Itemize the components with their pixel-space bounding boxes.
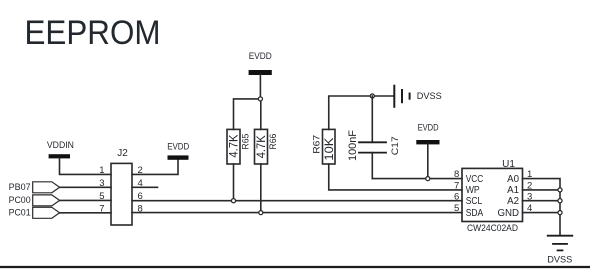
- svg-text:PB07: PB07: [9, 182, 31, 192]
- svg-text:J2: J2: [117, 148, 128, 159]
- power symbol EVDD at J2: [167, 142, 189, 160]
- svg-text:7: 7: [99, 203, 104, 214]
- wire U1 A0 to ground rail: [523, 179, 561, 236]
- wire J2 pin 4 stub: [132, 186, 158, 188]
- junction EVDD/VCC: [426, 177, 430, 181]
- ground symbol DVSS bottom: [547, 236, 572, 266]
- svg-text:8: 8: [454, 169, 459, 180]
- junction C17/DVSS rail: [370, 94, 374, 98]
- svg-text:4.7K: 4.7K: [227, 135, 241, 158]
- wire PC01 to J2 pin 7: [60, 212, 111, 214]
- ground symbol DVSS top: [394, 86, 442, 107]
- wire U1 GND: [523, 212, 561, 214]
- wire PB07 to J2 pin 3: [60, 186, 111, 188]
- svg-text:GND: GND: [497, 208, 519, 219]
- capacitor C17: [359, 96, 386, 179]
- wire R65 to SCL: [233, 164, 235, 201]
- svg-text:R65: R65: [240, 134, 250, 150]
- sheet border bottom: [0, 266, 590, 268]
- svg-text:DVSS: DVSS: [547, 254, 572, 265]
- resistor R67: [323, 129, 336, 164]
- svg-text:EVDD: EVDD: [249, 51, 272, 62]
- svg-text:A0: A0: [507, 174, 519, 185]
- svg-text:R67: R67: [312, 135, 322, 154]
- svg-text:CW24C02AD: CW24C02AD: [467, 223, 518, 234]
- svg-text:100nF: 100nF: [347, 130, 359, 161]
- port arrow PB07: [33, 182, 60, 193]
- junction R66/SDA: [259, 211, 263, 215]
- svg-text:VDDIN: VDDIN: [47, 140, 74, 151]
- junction A1: [558, 188, 562, 192]
- connector J2: [111, 163, 132, 225]
- wire PC00 to J2 pin 5: [60, 199, 111, 201]
- svg-text:DVSS: DVSS: [417, 91, 442, 102]
- wire R66 to SDA: [260, 164, 262, 213]
- wire EVDD right drop to VCC line: [427, 144, 429, 178]
- junction EVDD top: [258, 97, 262, 101]
- junction GND: [558, 211, 562, 215]
- svg-text:7: 7: [454, 181, 459, 192]
- power symbol VDDIN: [47, 140, 74, 159]
- wire VDDIN to J2 pin 1: [60, 158, 112, 174]
- svg-text:5: 5: [99, 191, 104, 202]
- junction A2: [558, 199, 562, 203]
- IC U1: [462, 168, 523, 221]
- wire net SDA bus J2 pin 8 to U1 SDA: [132, 212, 462, 214]
- svg-text:EVDD: EVDD: [167, 142, 189, 153]
- wire U1 A1: [523, 189, 561, 191]
- svg-text:C17: C17: [390, 136, 400, 155]
- svg-text:A2: A2: [507, 196, 519, 207]
- svg-text:EVDD: EVDD: [418, 122, 439, 133]
- wire R67 top to DVSS rail: [329, 96, 395, 129]
- port arrow PC00: [33, 195, 60, 206]
- junction R65/SCL: [231, 199, 235, 203]
- svg-text:VCC: VCC: [466, 174, 484, 185]
- power symbol EVDD top: [249, 51, 272, 75]
- wire net SCL bus J2 pin 6 to U1 SCL: [132, 200, 462, 202]
- svg-text:WP: WP: [466, 185, 480, 196]
- wire branch to R66: [260, 99, 262, 129]
- svg-text:PC00: PC00: [9, 195, 31, 205]
- resistor R65: [227, 129, 240, 164]
- svg-text:U1: U1: [502, 159, 515, 170]
- port arrow PC01: [33, 207, 60, 218]
- wire EVDD top drop: [259, 75, 261, 99]
- wire U1 A2: [523, 200, 561, 202]
- svg-text:A1: A1: [507, 185, 519, 196]
- wire branch to R65: [234, 99, 261, 129]
- svg-text:3: 3: [99, 178, 104, 189]
- svg-text:5: 5: [454, 203, 459, 214]
- svg-text:1: 1: [99, 165, 104, 176]
- svg-text:R66: R66: [268, 134, 278, 150]
- svg-text:6: 6: [454, 191, 459, 202]
- svg-text:EEPROM: EEPROM: [25, 14, 161, 52]
- svg-text:4.7K: 4.7K: [254, 135, 268, 158]
- svg-text:PC01: PC01: [9, 208, 31, 218]
- svg-text:SDA: SDA: [466, 208, 484, 219]
- wire net VCC line C17 to U1: [372, 178, 462, 180]
- resistor R66: [255, 129, 268, 164]
- wire R67 to WP line: [329, 164, 462, 190]
- wire J2 pin 2 to EVDD: [132, 159, 178, 174]
- svg-text:10K: 10K: [322, 138, 336, 161]
- svg-text:SCL: SCL: [466, 196, 483, 207]
- power symbol EVDD right: [416, 122, 439, 144]
